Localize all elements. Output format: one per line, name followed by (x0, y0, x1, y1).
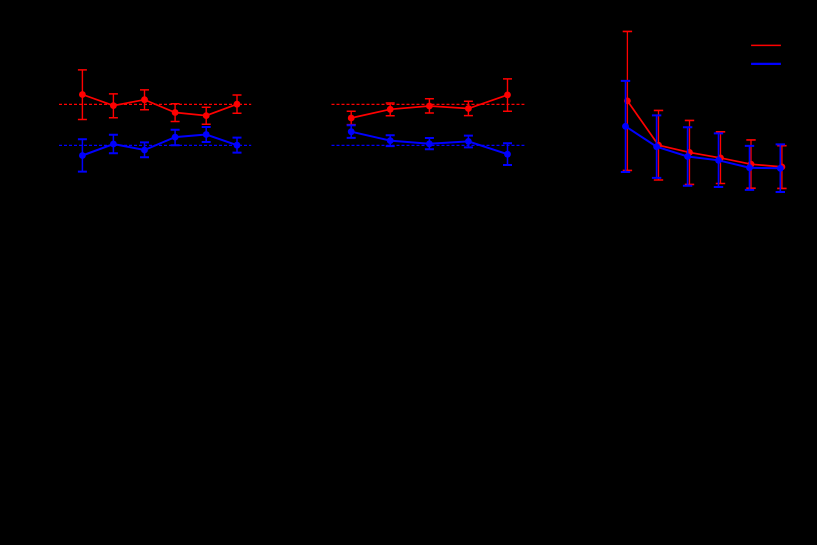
panel 1 blue dashed reference line (59, 144, 251, 146)
panel 2 red series markers (348, 92, 511, 122)
panel 2 blue series error bars (347, 125, 512, 165)
panel 3 blue series error bars (621, 81, 785, 192)
panel 3 blue series line (626, 126, 781, 168)
panel 2 blue series line (351, 132, 507, 155)
panel 2 red series error bars (347, 79, 512, 125)
panel 1 red dashed reference line (59, 103, 251, 105)
panel 2 red series line (351, 95, 507, 118)
panel 2 blue dashed reference line (332, 144, 525, 146)
panel 2 blue series markers (348, 128, 511, 157)
legend blue sample line (751, 63, 781, 65)
panel 1 blue series markers (79, 131, 240, 159)
legend red sample line (751, 44, 781, 46)
panel 1 blue series line (82, 135, 237, 156)
panel 3 red series error bars (623, 31, 787, 188)
panel 3 red series line (627, 101, 782, 167)
panel 3 blue series markers (622, 123, 784, 172)
panel 3 red series markers (624, 98, 785, 171)
panel 1 blue series error bars (78, 127, 242, 172)
panel 1 red series error bars (78, 70, 242, 124)
panel 1 red series line (82, 95, 237, 116)
panel 2 red dashed reference line (332, 103, 525, 105)
panel 1 red series markers (79, 91, 240, 119)
